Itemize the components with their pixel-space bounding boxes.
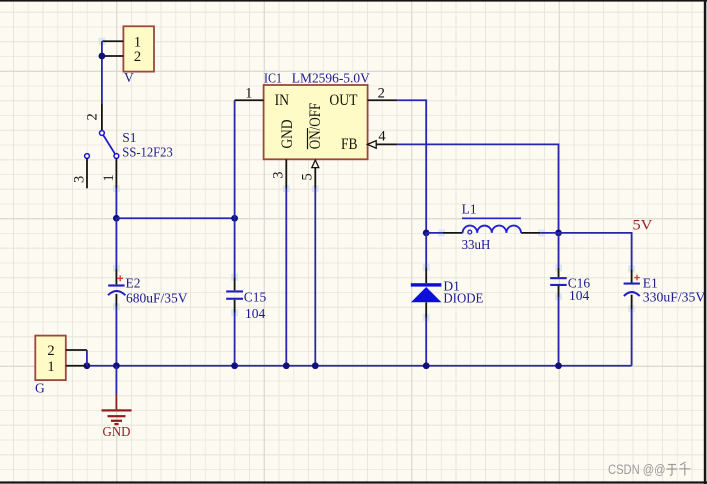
wire E1 to rail xyxy=(631,309,633,366)
wire C16 to rail xyxy=(558,297,560,366)
wire E2 to rail xyxy=(115,307,117,366)
svg-text:LM2596-5.0V: LM2596-5.0V xyxy=(292,70,370,85)
svg-text:CSDN @@: CSDN @@ xyxy=(608,462,666,477)
svg-text:330uF/35V: 330uF/35V xyxy=(643,290,706,305)
wire node A to node B xyxy=(116,217,234,219)
pin 3 GND xyxy=(270,159,286,189)
svg-text:G: G xyxy=(35,381,45,396)
rail junction at G xyxy=(84,362,91,369)
wire node B down to C15 xyxy=(234,218,236,277)
svg-text:DIODE: DIODE xyxy=(443,290,483,305)
svg-text:3: 3 xyxy=(270,171,286,178)
wire FB net xyxy=(397,144,558,233)
svg-text:C15: C15 xyxy=(244,290,267,305)
inductor L1 33uH xyxy=(443,202,540,252)
svg-text:2: 2 xyxy=(85,113,101,120)
rail junction at GND xyxy=(113,362,120,369)
wire VOUT node down to C16 xyxy=(558,233,560,268)
svg-text:1: 1 xyxy=(47,359,54,375)
op-amp IC1 LM2596-5.0V xyxy=(264,70,370,159)
capacitor C15 104 xyxy=(226,277,266,321)
wire pin3 to ground rail xyxy=(285,189,287,366)
watermark xyxy=(608,462,690,477)
svg-text:GND: GND xyxy=(103,424,131,439)
svg-text:3: 3 xyxy=(72,176,88,183)
svg-text:OUT: OUT xyxy=(329,92,357,109)
svg-text:E2: E2 xyxy=(126,276,141,291)
svg-text:IC1: IC1 xyxy=(264,70,282,85)
wire switch to node A xyxy=(115,188,117,218)
svg-text:1: 1 xyxy=(245,85,252,101)
wire L1 to VOUT node xyxy=(540,232,558,234)
rail junction at pin3 xyxy=(283,362,290,369)
rail junction at D1 xyxy=(423,362,430,369)
junction V xyxy=(99,53,106,60)
svg-text:33uH: 33uH xyxy=(462,237,491,252)
svg-text:1: 1 xyxy=(101,174,117,181)
svg-text:SS-12F23: SS-12F23 xyxy=(122,144,173,159)
node VOUT junction xyxy=(555,230,562,237)
wire D1 to rail xyxy=(425,318,427,366)
connector G xyxy=(35,336,87,396)
rail junction at pin5 xyxy=(312,362,319,369)
capacitor C16 104 xyxy=(550,268,590,304)
svg-text:GND: GND xyxy=(279,120,296,149)
wire from V to switch xyxy=(101,41,103,103)
wire SW node down to D1 xyxy=(425,233,427,267)
capacitor E1 330uF/35V xyxy=(624,269,706,309)
wire node A down to E2 xyxy=(115,218,117,268)
svg-text:S1: S1 xyxy=(122,130,136,145)
pin 2 OUT xyxy=(368,85,398,101)
svg-text:ON/OFF: ON/OFF xyxy=(307,102,324,149)
ground rail wire xyxy=(87,365,632,367)
wire pin5 to ground rail xyxy=(314,189,316,366)
svg-text:2: 2 xyxy=(134,49,141,65)
svg-text:E1: E1 xyxy=(643,276,658,291)
svg-text:1: 1 xyxy=(134,34,141,50)
connector V xyxy=(102,26,154,85)
rail junction at C15 xyxy=(231,362,238,369)
svg-text:IN: IN xyxy=(275,92,290,109)
wire node B up to IC pin 1 xyxy=(234,100,236,218)
diode D1 xyxy=(411,267,484,317)
wire VOUT node to E1 xyxy=(559,233,632,269)
pin 1 IN xyxy=(235,85,264,101)
svg-text:104: 104 xyxy=(569,288,590,303)
node B junction xyxy=(231,215,238,222)
ground xyxy=(102,394,132,439)
pin 4 FB xyxy=(367,129,397,149)
svg-text:104: 104 xyxy=(245,306,266,321)
node A junction xyxy=(113,215,120,222)
wire C15 to rail xyxy=(234,313,236,366)
svg-text:V: V xyxy=(124,70,134,85)
pin 5 ON/OFF xyxy=(300,160,319,189)
switch S1 xyxy=(72,104,174,189)
wire OUT to switch node xyxy=(397,100,426,233)
svg-text:2: 2 xyxy=(378,85,385,101)
wire rail to ground symbol xyxy=(115,366,117,394)
svg-text:5: 5 xyxy=(300,173,316,180)
svg-text:FB: FB xyxy=(341,136,358,153)
svg-text:5V: 5V xyxy=(633,217,653,233)
svg-text:680uF/35V: 680uF/35V xyxy=(126,290,188,305)
pin hotspot marks xyxy=(98,38,635,321)
capacitor E2 680uF/35V xyxy=(108,269,188,307)
svg-text:L1: L1 xyxy=(462,202,477,217)
svg-text:4: 4 xyxy=(378,129,386,145)
svg-text:2: 2 xyxy=(47,343,54,359)
rail junction at C16 xyxy=(555,362,562,369)
wire SW to L1 xyxy=(426,232,443,234)
node SW junction xyxy=(423,230,430,237)
